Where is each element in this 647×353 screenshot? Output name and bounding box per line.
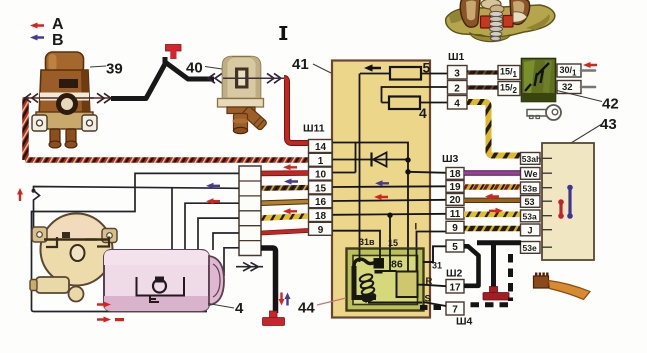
- wire thin line over pump 39: [40, 97, 94, 99]
- svg-text:Ш2: Ш2: [446, 268, 463, 280]
- relay 44 inner panel: [353, 256, 418, 305]
- wire: left vertical hatched feed wire: [22, 97, 29, 160]
- svg-text:53а: 53а: [523, 211, 537, 221]
- svg-text:18: 18: [315, 211, 327, 222]
- svg-text:17: 17: [449, 282, 461, 293]
- connector Sh1 pin 16: [309, 195, 333, 209]
- connector Sh1 pin 9: [309, 222, 333, 236]
- label 43: [571, 125, 601, 144]
- connector Sh4 pin 7: [446, 302, 464, 316]
- svg-text:53в: 53в: [523, 183, 538, 193]
- terminal 53e: [521, 242, 541, 254]
- svg-text:Ш1: Ш1: [448, 51, 465, 63]
- terminal 15/2: [498, 82, 520, 96]
- svg-text:7: 7: [452, 305, 458, 316]
- wire black pin 5 to pin 17: [464, 246, 479, 285]
- svg-text:Ш3: Ш3: [442, 153, 459, 165]
- ground symbol center: [483, 287, 509, 301]
- red arrow above pin 18 wire: [283, 208, 297, 214]
- connector chevrons left of pump 39: [25, 94, 38, 103]
- connector chevrons left of pump 40: [208, 73, 222, 83]
- blue arrow up near ground: [285, 293, 291, 306]
- terminal 53ah: [521, 153, 542, 165]
- relay thermo element 86: [397, 272, 418, 298]
- svg-text:18: 18: [449, 169, 461, 180]
- wire from block cell 5 into motor: [213, 233, 239, 250]
- intermediate connector block of wiper motor: [239, 166, 261, 256]
- red arrow down near ground: [279, 293, 285, 306]
- wire purple 18 to We: [464, 170, 521, 175]
- connector Sh3 pin 20: [446, 194, 464, 207]
- svg-text:J: J: [528, 225, 533, 235]
- terminal 53a: [521, 210, 541, 222]
- red dash bottom wire: [115, 318, 124, 321]
- svg-text:16: 16: [315, 197, 327, 208]
- svg-text:53е: 53е: [523, 243, 537, 253]
- svg-text:31в: 31в: [359, 237, 375, 247]
- red jumper bar in switch 43: [558, 199, 564, 219]
- svg-text:53: 53: [525, 197, 535, 207]
- svg-text:43: 43: [600, 116, 617, 133]
- wire from block cell 4 into motor: [198, 218, 239, 250]
- svg-text:39: 39: [106, 61, 123, 78]
- legend arrow B: [30, 35, 44, 41]
- connector Sh3 pin 19: [446, 181, 464, 194]
- red arrow on cell 3 wire: [206, 198, 220, 204]
- terminal 53: [521, 196, 541, 208]
- wire motor loop from block cell 1: [32, 173, 240, 311]
- svg-text:20: 20: [449, 195, 461, 206]
- blue arrow on cell 2 wire: [206, 183, 220, 189]
- wiper motor 4 gear housing: [30, 214, 117, 302]
- red arrow above wire 11-53a: [489, 208, 503, 214]
- svg-text:Ш4: Ш4: [456, 316, 473, 328]
- diode VD: [370, 153, 372, 167]
- svg-text:19: 19: [449, 182, 461, 193]
- wire pin 16 to pin 20: [332, 200, 447, 201]
- mounting block 41 body: [332, 61, 430, 318]
- connector Sh1 pin 1: [309, 153, 333, 167]
- connector Sh3 pin 5: [446, 240, 464, 253]
- wire dashed stub left of pin 7: [419, 305, 441, 310]
- wire from pin 1 through diode: [332, 159, 406, 161]
- node B junction: [405, 169, 410, 174]
- terminal 32: [557, 81, 581, 94]
- wire branch into motor from cell 2: [171, 188, 173, 250]
- wiper motor 4 armature body: [104, 250, 224, 311]
- key of ignition switch: [527, 105, 561, 120]
- wire through fuse 4 to pin 4: [382, 102, 448, 104]
- connector Sh1 pin 3: [448, 66, 468, 80]
- washer pump 39: [32, 52, 97, 148]
- flow arrow in block 41: [364, 64, 381, 71]
- wire: long hatched wire to pin 1 of connector Sh1: [25, 157, 308, 163]
- svg-text:9: 9: [452, 223, 458, 234]
- washer jet tee: [166, 45, 182, 60]
- relay 44 internals: [354, 259, 422, 303]
- connector of wiper lever: [534, 273, 549, 289]
- label 39: [90, 66, 106, 67]
- wire twisted pin 3 to 15/1: [467, 70, 498, 74]
- connector chevrons right of pump 39: [97, 93, 111, 103]
- svg-text:4: 4: [419, 105, 427, 121]
- washer pump 40: [218, 57, 268, 134]
- connector Sh3 pin 11: [446, 207, 464, 220]
- wire long vertical from fuse 5 to relay: [359, 74, 361, 250]
- wire black from block to ground: [261, 248, 276, 313]
- svg-text:Wе: Wе: [524, 169, 538, 179]
- wire: thin line through pump 40: [222, 77, 285, 79]
- wiper switch 43 body: [542, 143, 594, 260]
- illustration: wiper gear cutaway: [446, 0, 555, 42]
- node I (roman numeral): [279, 26, 287, 40]
- wire brown-yellow to pin 16: [261, 202, 308, 204]
- wire hatched yellow 11 to 53a: [464, 212, 521, 218]
- wire through fuse 5 to pin 3: [360, 73, 447, 75]
- wire from node B to pin 18 of Sh3: [408, 172, 447, 173]
- svg-text:42: 42: [602, 96, 619, 113]
- wire dashed black 53e to Sh4 pin 7: [508, 254, 513, 301]
- svg-text:S: S: [425, 294, 431, 305]
- wire hatched yellow pin 4 to 53ah: [467, 102, 521, 156]
- terminal 30/1: [557, 64, 581, 77]
- svg-text:14: 14: [315, 142, 327, 153]
- red arrow on motor lower body: [97, 302, 111, 308]
- connector Sh1 pin 2: [448, 81, 468, 95]
- svg-text:15: 15: [388, 238, 398, 248]
- terminal 15/1: [498, 66, 520, 80]
- connector Sh1 pin 14: [309, 140, 333, 154]
- svg-text:Ш11: Ш11: [303, 123, 325, 135]
- svg-text:86: 86: [391, 259, 403, 271]
- label 4: [208, 304, 234, 309]
- fuse F5: [390, 67, 421, 80]
- svg-text:15: 15: [315, 183, 327, 194]
- wire from block cell 6 into motor end cap: [224, 248, 239, 276]
- wire vertical to relay terminal I: [407, 160, 409, 249]
- wire from block cell 3 into motor: [185, 203, 239, 250]
- wiper switch lever: [549, 281, 591, 300]
- wire relay terminal S to pin 7: [423, 302, 446, 306]
- connector arrow symbol below block: [236, 262, 263, 271]
- red arrow up at far left: [17, 188, 23, 201]
- relay internal wire stubs from terminals: [360, 249, 417, 272]
- contact ticks inside switch 43: [542, 158, 552, 247]
- svg-text:31: 31: [432, 261, 442, 271]
- wire pin 15 to pin 19: [332, 185, 447, 188]
- connector Sh1 pin 10: [309, 167, 333, 181]
- terminal 53v: [521, 182, 541, 194]
- wire pin 18 to pin 11: [332, 214, 447, 215]
- wire hatched yellow to pin 18: [261, 216, 308, 218]
- svg-text:41: 41: [292, 56, 309, 73]
- wire black from 53e to ground tee: [477, 240, 521, 245]
- wire red to pin 10: [261, 170, 308, 176]
- svg-text:I: I: [415, 222, 418, 233]
- wire from pin 2 looping to fuse 4: [382, 87, 448, 103]
- connector Sh1 pin 4: [448, 96, 468, 110]
- blue arrow above pin 15 wire: [284, 179, 298, 185]
- red arrow above pin 10 wire: [283, 164, 297, 170]
- wire twisted pin 2 to 15/2: [467, 85, 498, 89]
- svg-text:5: 5: [452, 242, 458, 253]
- blue arrow on wire 15-19: [375, 180, 389, 186]
- label 44: [317, 298, 346, 305]
- svg-text:4: 4: [235, 300, 244, 317]
- svg-text:1: 1: [318, 156, 324, 167]
- terminal J: [521, 224, 541, 236]
- wire: black hose wire from 39 to jet and 40: [111, 57, 214, 99]
- svg-text:B: B: [52, 32, 64, 49]
- wire black ground drop: [491, 243, 496, 288]
- wire: thin line into washer pump 39: [26, 97, 112, 99]
- connector Sh1 pin 18: [309, 209, 333, 223]
- red arrow on wire 16-20: [374, 194, 388, 200]
- connector chevrons right of pump 40: [267, 73, 281, 83]
- svg-text:53ah: 53ah: [522, 154, 541, 164]
- wire joining pin 14 and pin 10: [332, 143, 356, 173]
- relay 44 body: [347, 249, 424, 311]
- wire hatched 19 to 53v: [464, 184, 521, 189]
- svg-text:R: R: [426, 276, 433, 287]
- svg-text:9: 9: [318, 225, 324, 236]
- connector Sh3 pin 18: [446, 168, 464, 181]
- wire: red wire from 40 to pin 14: [284, 78, 308, 143]
- svg-text:4: 4: [454, 98, 460, 109]
- wire from block cell 2 to gear housing: [34, 187, 240, 229]
- ignition switch 42: [522, 59, 556, 102]
- node A junction: [405, 157, 410, 162]
- connector Sh3 pin 9: [446, 221, 464, 234]
- svg-text:32: 32: [562, 82, 573, 93]
- svg-text:5: 5: [423, 60, 431, 76]
- svg-text:11: 11: [450, 209, 461, 220]
- wire hatched dark to pin 15: [261, 185, 308, 191]
- svg-text:2: 2: [454, 83, 460, 94]
- terminal stub wires right of switch: [581, 69, 595, 72]
- connector Sh1 pin 15: [309, 181, 333, 195]
- fuse F4: [389, 97, 420, 110]
- wire red to pin 9: [261, 231, 308, 234]
- svg-text:10: 10: [315, 170, 327, 181]
- terminal We: [521, 168, 541, 180]
- wire relay terminal R to pin 17: [418, 285, 447, 287]
- svg-text:40: 40: [186, 60, 203, 77]
- red arrow bottom wire: [97, 317, 111, 323]
- label 41: [313, 64, 331, 73]
- wire hatched black-yellow 9 to J: [464, 226, 521, 232]
- red arrow at terminal 30/1: [583, 62, 597, 68]
- svg-text:A: A: [52, 16, 64, 33]
- connector Sh2 pin 17: [446, 280, 464, 294]
- wire thin line over pump 40: [223, 77, 285, 79]
- blue jumper bar in switch 43: [567, 185, 573, 219]
- wire pin 9 to relay terminal 31v: [332, 231, 380, 259]
- svg-text:3: 3: [454, 68, 460, 79]
- wire relay terminal 31 to pin 5: [423, 246, 446, 262]
- svg-text:44: 44: [298, 300, 315, 317]
- wire Sh3 pin 9 to relay terminal I: [417, 232, 448, 267]
- legend arrow A: [30, 23, 44, 29]
- label 42: [557, 91, 602, 102]
- label 40: [205, 67, 222, 70]
- node junction to relay 15: [387, 213, 392, 218]
- red arrow above wire 20-53: [485, 194, 499, 200]
- wire brown 20 to 53: [464, 198, 521, 203]
- wire down to relay terminal 15: [389, 215, 391, 271]
- wire from pin 14 across block: [332, 143, 408, 161]
- ground symbol left: [263, 311, 285, 326]
